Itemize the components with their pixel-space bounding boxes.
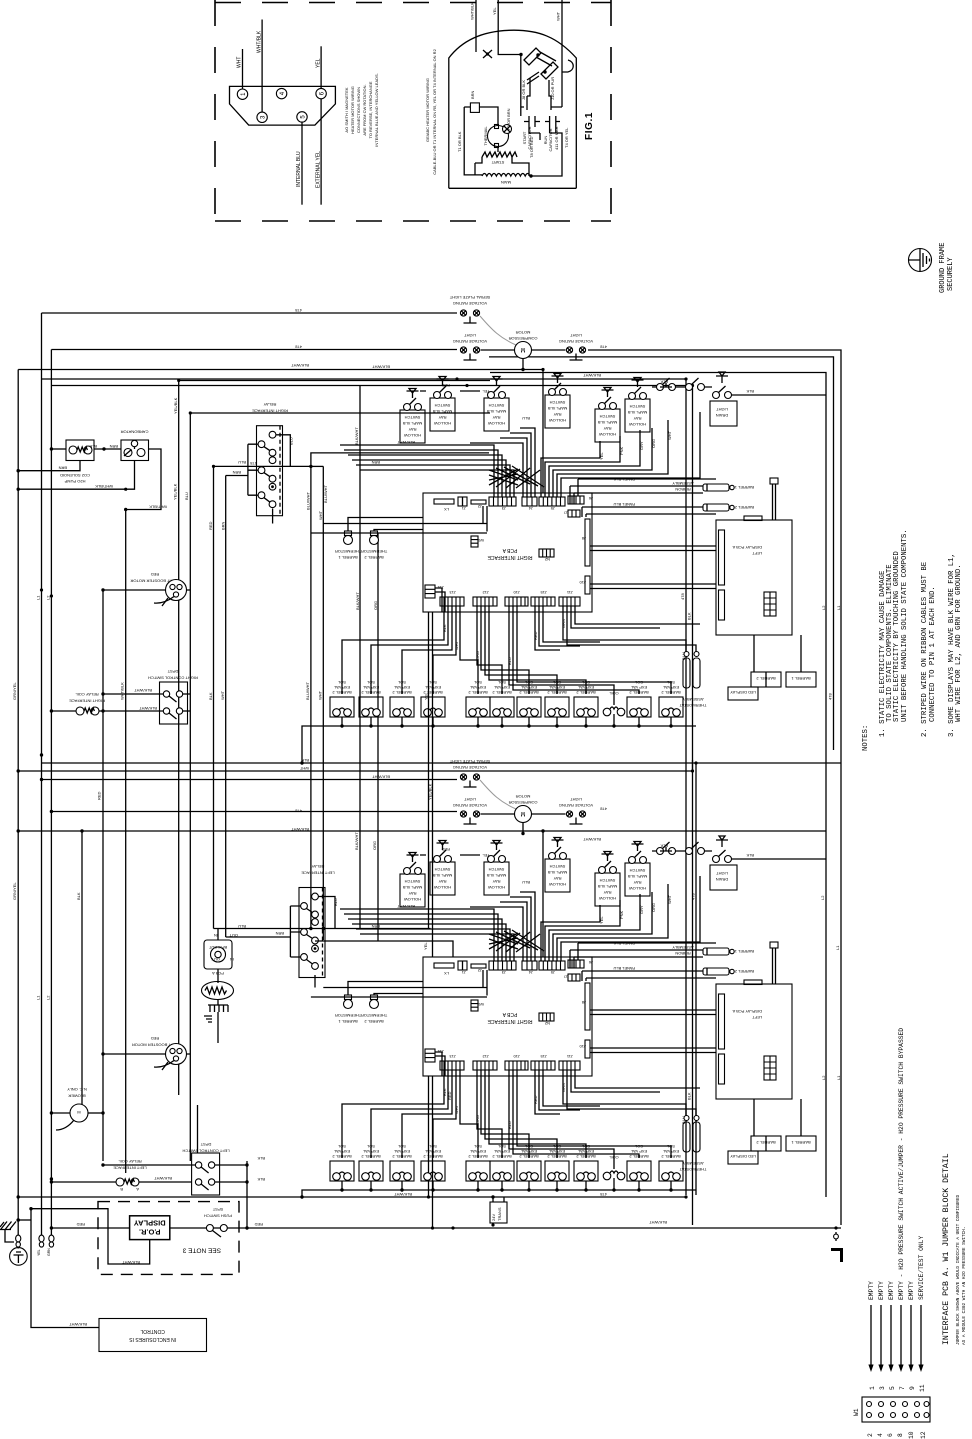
terminal stubs — [16, 1235, 54, 1247]
svg-text:INTERFACE PCB A. W1 JUMPER BL: INTERFACE PCB A. W1 JUMPER BLOCK DETAIL — [942, 1153, 951, 1345]
wire EXTERNAL YEL from pin6 — [320, 99, 322, 205]
svg-text:WHT/BLK: WHT/BLK — [470, 2, 475, 20]
comb symbol — [208, 1005, 228, 1043]
lower half core — [311, 759, 826, 1192]
svg-text:INTERNAL BLU: INTERNAL BLU — [296, 151, 302, 187]
svg-text:WHT: WHT — [220, 690, 225, 700]
wire top horizontal blkwht — [42, 379, 687, 1195]
wire left vertical x103 — [102, 590, 104, 1161]
svg-text:8: 8 — [897, 1433, 904, 1437]
run capacitor symbol — [545, 116, 560, 127]
svg-text:RED: RED — [97, 791, 102, 800]
svg-text:GRN/YEL: GRN/YEL — [12, 682, 17, 700]
svg-text:6: 6 — [887, 1433, 894, 1437]
svg-text:BLU: BLU — [333, 898, 338, 906]
svg-text:9: 9 — [909, 1386, 916, 1390]
svg-text:478: 478 — [600, 345, 607, 350]
svg-text:BLK/WHT: BLK/WHT — [69, 1322, 87, 1327]
svg-text:A: A — [136, 1187, 139, 1192]
svg-text:BLK/WHT: BLK/WHT — [291, 827, 309, 832]
note text GE/ABC (rotated) — [425, 48, 437, 174]
solenoid bus drop lower — [302, 1190, 342, 1197]
svg-text:TO REVERSE, INTERCHANGE: TO REVERSE, INTERCHANGE — [368, 81, 373, 138]
upper half core — [311, 295, 826, 728]
svg-text:BLK/WHT: BLK/WHT — [291, 363, 309, 368]
wire WHT/BLK to pin3 — [261, 20, 263, 113]
svg-text:BRN: BRN — [232, 470, 241, 475]
wire trunk x310 — [310, 466, 312, 930]
svg-text:478: 478 — [250, 461, 257, 466]
wire mid bus y831 — [18, 831, 543, 957]
svg-text:WHT WIRE FOR L2, AND GRN FOR G: WHT WIRE FOR L2, AND GRN FOR GROUND. — [955, 564, 963, 722]
svg-text:BLK/WHT: BLK/WHT — [649, 1220, 667, 1225]
L7 bracket glyph — [831, 1248, 843, 1262]
svg-text:IN: IN — [230, 957, 234, 962]
svg-text:2: 2 — [867, 1433, 874, 1437]
svg-text:CONNECTED TO PIN 1 AT EACH END: CONNECTED TO PIN 1 AT EACH END. — [929, 586, 937, 722]
svg-text:BRN: BRN — [58, 466, 67, 471]
wire WHT to pin1 — [242, 49, 244, 89]
svg-text:11: 11 — [919, 1384, 926, 1392]
wire L1 bus top — [42, 312, 458, 314]
start winding coil — [482, 152, 517, 157]
wire bus to pump — [51, 448, 66, 450]
svg-text:GRN/YEL: GRN/YEL — [12, 882, 17, 900]
svg-text:1: 1 — [869, 1386, 876, 1390]
svg-text:L1: L1 — [36, 595, 41, 600]
svg-text:HEATER MOTOR WIRING: HEATER MOTOR WIRING — [350, 86, 355, 134]
pin numbers even — [867, 1431, 927, 1439]
svg-text:L1: L1 — [836, 1075, 841, 1080]
svg-text:YEL/BLK: YEL/BLK — [173, 483, 178, 500]
svg-text:24V: 24V — [491, 1214, 496, 1221]
svg-text:P.O.R.: P.O.R. — [139, 1227, 161, 1236]
svg-text:BLK: BLK — [76, 892, 81, 900]
svg-text:L1: L1 — [36, 995, 41, 1000]
svg-text:BLU/WHT: BLU/WHT — [323, 484, 328, 503]
svg-text:BLK: BLK — [687, 1092, 692, 1100]
svg-text:UNIT BEFORE HANDLING SOLID STA: UNIT BEFORE HANDLING SOLID STATE COMPONE… — [901, 529, 909, 722]
trunk down from upper area — [428, 612, 430, 929]
svg-text:BLK/WHT: BLK/WHT — [355, 592, 360, 610]
svg-text:RED: RED — [76, 1222, 85, 1227]
wire INTERNAL BLU from pin5 — [301, 122, 303, 205]
svg-text:JUMPER BLOCK SHOWN ABOVE WOULD: JUMPER BLOCK SHOWN ABOVE WOULD INDICATE … — [956, 1194, 961, 1345]
svg-text:EMPTY: EMPTY — [868, 1281, 875, 1300]
pin 3 — [257, 112, 267, 122]
svg-text:YEL: YEL — [492, 7, 497, 15]
svg-text:4: 4 — [877, 1433, 884, 1437]
svg-text:BPM OUT: BPM OUT — [208, 945, 227, 950]
svg-text:EMPTY: EMPTY — [878, 1281, 885, 1300]
svg-text:YEL: YEL — [37, 1249, 41, 1256]
svg-text:5: 5 — [889, 1386, 896, 1390]
wire neutral bus — [18, 370, 543, 494]
wire trunk x225 — [225, 476, 227, 938]
note text AO SMITH (rotated) — [344, 73, 379, 147]
terminal box P1 — [470, 103, 479, 113]
svg-text:478: 478 — [691, 893, 696, 900]
svg-text:WHT/BLK: WHT/BLK — [95, 484, 113, 489]
svg-text:BLK/WHT: BLK/WHT — [354, 832, 359, 850]
svg-text:RELAY: RELAY — [311, 864, 324, 869]
wire WHT/BLK top — [475, 0, 477, 52]
wire bottom bus y1225 — [51, 1227, 841, 1229]
chassis ground hatch — [0, 1222, 16, 1230]
wire top horizontal blk — [51, 386, 692, 1226]
wire L2 bus — [51, 349, 457, 351]
wire left vertical x82 — [81, 831, 83, 1105]
svg-text:INTERNAL BLUE AND YELLOW LEADS: INTERNAL BLUE AND YELLOW LEADS. — [374, 73, 379, 147]
H2O pump CO2 solenoid — [66, 440, 94, 461]
svg-text:BLU: BLU — [238, 460, 246, 465]
svg-text:T8 OR RED: T8 OR RED — [529, 137, 534, 158]
wire mid bus y755 — [42, 762, 842, 764]
svg-text:3: 3 — [879, 1386, 886, 1390]
svg-text:RIGHT CONTROL SWITCH: RIGHT CONTROL SWITCH — [148, 676, 198, 681]
wire J8 OR BLK — [527, 78, 530, 110]
wire J10 OR PUR — [549, 80, 551, 110]
svg-text:BLK/WHT: BLK/WHT — [122, 1260, 140, 1265]
svg-text:YEL: YEL — [315, 58, 321, 68]
wire to control box — [31, 1209, 99, 1328]
jumper arrow labels — [868, 1028, 925, 1300]
svg-text:T4 OR YEL: T4 OR YEL — [564, 127, 569, 148]
wire right rail x826 — [490, 373, 826, 1198]
svg-text:L2: L2 — [46, 595, 51, 600]
svg-text:478: 478 — [600, 807, 607, 812]
svg-text:478: 478 — [828, 693, 833, 700]
svg-text:BLK/WHT: BLK/WHT — [354, 427, 359, 445]
wire left vertical x190 — [190, 413, 490, 1161]
extra junction dots — [17, 368, 838, 1230]
svg-text:EMPTY: EMPTY — [888, 1281, 895, 1300]
svg-text:WHT: WHT — [318, 690, 323, 700]
svg-text:PUSH SWITCH: PUSH SWITCH — [204, 1214, 232, 1219]
svg-text:RELAY COIL: RELAY COIL — [75, 692, 99, 697]
svg-text:SERVICE/TEST ONLY: SERVICE/TEST ONLY — [918, 1236, 925, 1300]
wire trunk x213 — [213, 466, 215, 928]
relay wires upper — [276, 435, 290, 467]
svg-text:12: 12 — [920, 1431, 927, 1439]
svg-text:START: START — [491, 160, 504, 165]
svg-text:W1: W1 — [853, 1408, 860, 1416]
svg-text:RED: RED — [254, 1222, 263, 1227]
svg-text:OUT: OUT — [211, 957, 220, 962]
svg-text:GE/ABC HEATER MOTOR WIRING: GE/ABC HEATER MOTOR WIRING — [425, 78, 430, 142]
W1 jumper block — [862, 1397, 930, 1422]
scattered wire labels — [12, 308, 841, 1225]
svg-text:TRANS: TRANS — [497, 1207, 502, 1221]
svg-text:RIGHT INTERFACE: RIGHT INTERFACE — [69, 699, 105, 704]
svg-text:WHT/BLK: WHT/BLK — [256, 30, 262, 53]
pin 4 — [276, 88, 286, 98]
svg-text:BLK/WHT: BLK/WHT — [139, 706, 157, 711]
svg-text:CO2 SOLENOID: CO2 SOLENOID — [60, 473, 90, 478]
svg-text:RELAY: RELAY — [263, 402, 276, 407]
svg-text:RED: RED — [151, 572, 160, 577]
svg-text:478: 478 — [295, 308, 302, 313]
svg-text:WHT: WHT — [237, 57, 243, 68]
svg-text:411 OR MAR: 411 OR MAR — [554, 126, 559, 150]
svg-text:DPST: DPST — [167, 669, 178, 674]
svg-text:FIG.1: FIG.1 — [584, 112, 595, 140]
svg-text:WHT: WHT — [299, 766, 309, 771]
notes block — [862, 529, 963, 751]
svg-text:10: 10 — [908, 1431, 915, 1439]
svg-text:WHT/BLK: WHT/BLK — [120, 682, 125, 700]
svg-text:THERMAL: THERMAL — [483, 126, 488, 146]
jumper arrows — [871, 1305, 921, 1368]
svg-text:BLK/WHT: BLK/WHT — [583, 837, 601, 842]
svg-text:BRN: BRN — [109, 444, 118, 449]
svg-text:BLU/WHT: BLU/WHT — [305, 681, 310, 700]
wire right rail x833 — [489, 357, 834, 750]
svg-text:BLK: BLK — [301, 758, 309, 763]
wire mid bus y811 — [51, 811, 457, 813]
ground junction wire — [18, 1219, 31, 1221]
svg-text:RELAY COIL: RELAY COIL — [118, 1159, 142, 1164]
svg-text:SPST: SPST — [212, 1207, 223, 1212]
svg-text:DISPLAY: DISPLAY — [134, 1218, 166, 1227]
svg-text:M: M — [77, 1110, 80, 1115]
wire trunk x378 — [377, 533, 379, 941]
24v transformer box — [490, 1202, 507, 1223]
relay wires lower — [319, 897, 335, 929]
svg-text:BLK: BLK — [687, 612, 692, 620]
wire YEL top — [498, 0, 521, 55]
pin 6 — [316, 88, 326, 98]
rail end connector — [835, 1232, 837, 1241]
svg-text:BLK/WHT: BLK/WHT — [154, 1176, 172, 1181]
svg-text:7: 7 — [899, 1386, 906, 1390]
pin 5 — [297, 112, 307, 122]
wire left bus x51 — [50, 350, 52, 1237]
svg-text:WHT/BLK: WHT/BLK — [149, 505, 167, 510]
wire mid bus y779 — [42, 779, 458, 781]
pin numbers odd — [869, 1384, 926, 1392]
wire right return x696 — [695, 763, 697, 1195]
svg-text:L2: L2 — [821, 605, 826, 610]
svg-text:STATIC ELECTRICITY BY TOUCHING: STATIC ELECTRICITY BY TOUCHING GROUNDED — [893, 551, 901, 722]
svg-text:MAIN: MAIN — [501, 180, 511, 185]
svg-text:GRN: GRN — [47, 1248, 51, 1256]
wire YEL to pin6 — [320, 46, 322, 88]
svg-text:L1: L1 — [836, 605, 841, 610]
svg-text:IN ENCLOSURES IS: IN ENCLOSURES IS — [129, 1336, 177, 1342]
wire trunk x323 — [322, 466, 324, 940]
svg-text:H2O PUMP: H2O PUMP — [64, 479, 85, 484]
junction dots on left buses — [17, 469, 54, 1230]
svg-text:BRN: BRN — [221, 521, 226, 530]
svg-text:GROUND FRAME: GROUND FRAME — [939, 243, 947, 293]
svg-text:478: 478 — [295, 809, 302, 814]
lower J14 drops — [428, 1076, 430, 1197]
svg-text:RIGHT INTERFACE: RIGHT INTERFACE — [252, 409, 288, 414]
pin 1 — [237, 89, 247, 99]
svg-text:EMPTY - H2O PRESSURE SWITCH AC: EMPTY - H2O PRESSURE SWITCH ACTIVE/JUMPE… — [898, 1028, 905, 1300]
control box — [99, 1319, 207, 1352]
svg-text:BLK/WHT: BLK/WHT — [583, 373, 601, 378]
svg-text:2. STRIPED WIRE ON RIBBON CAB: 2. STRIPED WIRE ON RIBBON CABLES MUST BE — [921, 562, 929, 737]
svg-text:SECURELY: SECURELY — [947, 257, 955, 291]
svg-text:BLOWER: BLOWER — [68, 1094, 85, 1099]
svg-text:BLK: BLK — [208, 692, 213, 700]
svg-text:478: 478 — [680, 593, 685, 600]
svg-text:J8 OR BLK: J8 OR BLK — [521, 80, 526, 100]
svg-text:YEL/BLK: YEL/BLK — [173, 397, 178, 414]
svg-text:478: 478 — [295, 345, 302, 350]
svg-text:BLK/WHT: BLK/WHT — [134, 688, 152, 693]
wire mid bus y771 — [18, 760, 692, 771]
wire por loop — [31, 1209, 150, 1264]
svg-text:WHT: WHT — [318, 510, 323, 520]
svg-text:BRN: BRN — [275, 931, 284, 936]
svg-text:WHT: WHT — [556, 11, 561, 21]
svg-text:AS A MODULE C302 WITH AN H2O P: AS A MODULE C302 WITH AN H2O PRESSURE SW… — [962, 1226, 967, 1345]
svg-text:BLK/WHT: BLK/WHT — [372, 365, 390, 370]
inner wiring loop — [464, 55, 573, 177]
connector plug outline (AO Smith motor) — [230, 86, 336, 125]
svg-text:BLU: BLU — [184, 492, 189, 500]
svg-text:EMPTY: EMPTY — [908, 1281, 915, 1300]
wire right rail x841 — [588, 350, 841, 1225]
svg-text:L2: L2 — [46, 995, 51, 1000]
svg-text:L1: L1 — [835, 945, 840, 950]
svg-text:OUT: OUT — [229, 933, 238, 938]
svg-text:AO SMITH / MAGNETEK: AO SMITH / MAGNETEK — [344, 87, 349, 132]
carbonator wires — [126, 449, 161, 1173]
transformer oval — [202, 982, 234, 1000]
wire left bus x41 — [41, 313, 43, 1236]
svg-text:RED: RED — [208, 521, 213, 530]
por dashed enclosure — [98, 1202, 239, 1275]
svg-text:BLU/WHT: BLU/WHT — [306, 491, 311, 510]
svg-text:BLK: BLK — [257, 1156, 265, 1161]
svg-text:SEE NOTE 3: SEE NOTE 3 — [182, 1247, 221, 1254]
svg-text:BLK/WHT: BLK/WHT — [372, 775, 390, 780]
start capacitor symbol — [524, 116, 540, 127]
svg-text:BLK: BLK — [257, 1177, 265, 1182]
svg-text:BLK/WHT: BLK/WHT — [394, 1192, 412, 1197]
wire left bus x18 — [17, 370, 19, 1248]
GE motor dome outline — [449, 30, 577, 188]
svg-text:CONNECTIONS SHOWN: CONNECTIONS SHOWN — [356, 87, 361, 133]
wire WHT top — [561, 0, 563, 107]
svg-text:T1 OR BLK: T1 OR BLK — [457, 131, 462, 152]
svg-text:ORG: ORG — [373, 601, 378, 610]
svg-text:CAPACITOR: CAPACITOR — [548, 128, 553, 151]
earth ground circle — [10, 1248, 28, 1266]
svg-text:N.C. ONLY: N.C. ONLY — [67, 1087, 87, 1092]
cut symbol — [483, 50, 492, 58]
thermal protector circle — [488, 126, 509, 147]
wire bottom bus y1195 — [18, 1196, 686, 1198]
svg-text:CARBONATOR: CARBONATOR — [120, 430, 148, 435]
main winding coil — [482, 174, 530, 177]
svg-text:ARE FROM CW ROTATION.: ARE FROM CW ROTATION. — [362, 84, 367, 135]
figure border dashed box — [215, 0, 611, 221]
svg-text:NOTES:: NOTES: — [862, 725, 870, 751]
svg-text:BRN: BRN — [470, 90, 475, 99]
centrifugal switch plates — [524, 48, 558, 84]
ground frame symbol — [909, 249, 932, 272]
svg-text:LEFT INTERFACE: LEFT INTERFACE — [113, 1166, 147, 1171]
svg-text:LEFT INTERFACE: LEFT INTERFACE — [301, 871, 335, 876]
svg-text:EXTERNAL YEL: EXTERNAL YEL — [315, 151, 321, 188]
solenoid bus drop upper — [302, 726, 342, 763]
svg-text:L2: L2 — [821, 1075, 826, 1080]
wire left vertical x178 — [179, 381, 490, 1096]
svg-text:L2: L2 — [820, 895, 825, 900]
svg-text:478: 478 — [600, 1192, 607, 1197]
svg-text:YEL: YEL — [423, 942, 428, 950]
svg-text:ORG: ORG — [372, 841, 377, 850]
svg-text:B: B — [120, 1187, 123, 1192]
svg-text:BLU: BLU — [289, 437, 294, 445]
wire trunk x360 — [359, 386, 361, 929]
svg-text:CABLE-BLU OR T1 INTERNAL ON R5: CABLE-BLU OR T1 INTERNAL ON R5, YEL OR T… — [432, 48, 437, 174]
svg-text:CONTROL: CONTROL — [140, 1328, 165, 1334]
svg-text:RED: RED — [151, 1036, 160, 1041]
svg-text:J10 OR PUR: J10 OR PUR — [550, 77, 555, 100]
por display box — [130, 1216, 170, 1240]
svg-text:P2 OR BRN: P2 OR BRN — [506, 108, 511, 130]
svg-text:DPST: DPST — [200, 1142, 211, 1147]
